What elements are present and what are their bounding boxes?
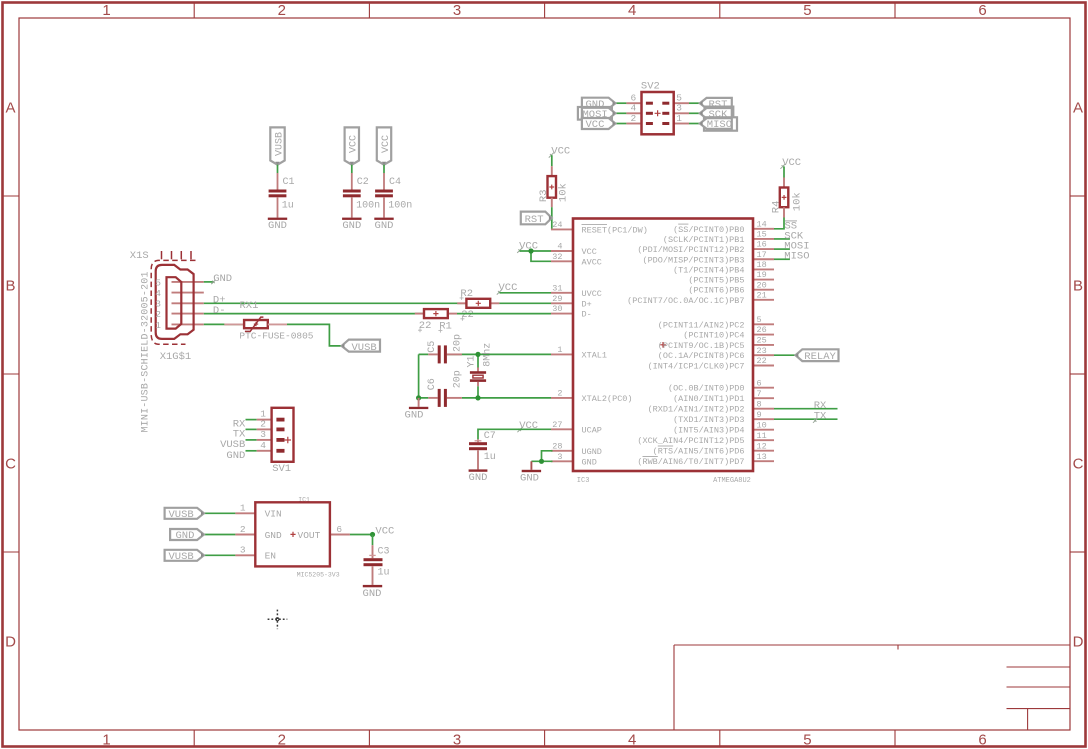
connector X1 pin numbers: [155, 277, 161, 331]
svg-text:100n: 100n: [388, 201, 412, 212]
wire SCK stub: [774, 238, 790, 240]
svg-text:1u: 1u: [484, 452, 496, 463]
net flag RST: [521, 212, 552, 225]
svg-text:3: 3: [453, 2, 461, 19]
svg-text:3: 3: [260, 429, 266, 440]
svg-text:(OC.1A/PCINT8)PC6: (OC.1A/PCINT8)PC6: [658, 351, 745, 361]
svg-text:6: 6: [978, 2, 986, 19]
ground at IC3 GND: [530, 461, 532, 470]
svg-text:VCC: VCC: [586, 119, 605, 131]
supply flag VCC (C2): [345, 127, 359, 164]
frame column dividers: [194, 3, 895, 748]
svg-text:B: B: [1073, 278, 1083, 295]
svg-text:MINI-USB-SCHIELD-32005-201: MINI-USB-SCHIELD-32005-201: [141, 272, 152, 433]
net labels RX TX VUSB GND at SV1: [220, 419, 246, 462]
svg-text:1: 1: [676, 113, 682, 124]
svg-text:GND: GND: [469, 472, 488, 484]
svg-text:11: 11: [757, 431, 767, 441]
ground at C3: [363, 585, 382, 587]
connector X1 shield dashed outline: [151, 260, 195, 344]
svg-text:RST: RST: [525, 214, 544, 226]
ground at C7: [469, 469, 488, 471]
junction VCC at C3: [370, 532, 375, 537]
title block: [674, 645, 1070, 730]
svg-text:30: 30: [552, 304, 562, 314]
svg-text:2: 2: [278, 2, 286, 19]
IC1 body MIC5205: [255, 502, 330, 566]
svg-text:12: 12: [757, 441, 767, 451]
svg-text:1: 1: [102, 732, 110, 749]
net flag VUSB (IC1 VIN): [165, 508, 204, 519]
svg-text:(PCINT5)PB5: (PCINT5)PB5: [688, 276, 744, 286]
svg-text:(PDO/MISP/PCINT3)PB3: (PDO/MISP/PCINT3)PB3: [642, 255, 744, 265]
svg-text:26: 26: [757, 325, 767, 335]
IC IC3 body: [573, 219, 753, 472]
connector X1 inner cavity: [167, 277, 182, 328]
svg-text:RELAY: RELAY: [804, 351, 836, 363]
svg-text:VCC: VCC: [551, 146, 570, 158]
svg-text:1: 1: [155, 320, 161, 331]
svg-text:X1G$1: X1G$1: [160, 351, 192, 363]
net flag VUSB (fuse): [342, 340, 380, 352]
wire UCAP net: [478, 429, 551, 439]
connector SV2 pins right: [674, 103, 700, 123]
capacitor C2 100n with ground: [351, 173, 353, 190]
svg-text:C2: C2: [357, 177, 369, 188]
svg-text:(RTS/AIN5/INT6)PD6: (RTS/AIN5/INT6)PD6: [653, 447, 745, 457]
frame row letters left: [5, 100, 16, 651]
svg-text:6: 6: [757, 378, 762, 388]
svg-text:2: 2: [278, 732, 286, 749]
svg-text:VCC: VCC: [519, 420, 538, 432]
svg-text:MISO: MISO: [707, 119, 732, 131]
crystal Y1 8Mhz: [477, 354, 479, 367]
capacitor C7 1u: [477, 439, 479, 442]
net flag VUSB (IC1 EN): [165, 550, 204, 561]
svg-text:27: 27: [552, 420, 562, 430]
svg-text:PTC-FUSE-0805: PTC-FUSE-0805: [239, 331, 313, 342]
wire D+ net X1 to R2: [204, 302, 467, 304]
svg-text:GND: GND: [363, 588, 382, 600]
wire VCC to IC3 pins 4 and 32: [520, 251, 552, 261]
svg-text:5: 5: [803, 732, 811, 749]
svg-text:10: 10: [757, 420, 767, 430]
capacitor C5 20p: [438, 345, 441, 363]
svg-text:VCC: VCC: [381, 135, 392, 153]
svg-text:(PCINT6)PB6: (PCINT6)PB6: [688, 286, 744, 296]
wire D- net X1 to R1: [204, 313, 424, 315]
svg-text:R3: R3: [538, 189, 550, 202]
svg-text:22: 22: [757, 356, 767, 366]
svg-text:6: 6: [336, 524, 342, 535]
svg-text:1u: 1u: [282, 201, 294, 212]
wire C5-C6 left vertical: [418, 354, 420, 398]
net flag GND (SV2 pin6): [582, 98, 616, 109]
svg-text:20p: 20p: [453, 370, 464, 388]
svg-text:MIC5205-3V3: MIC5205-3V3: [297, 571, 340, 578]
wire UGND/GND to ground: [531, 451, 552, 462]
wire XTAL1 rail: [419, 353, 551, 355]
wire VUSB to C1: [277, 165, 279, 174]
IC IC3 left pin names: [582, 225, 648, 467]
wire VBUS from X1 pin1 to fuse: [204, 323, 244, 325]
svg-text:20p: 20p: [453, 334, 464, 352]
svg-text:2: 2: [155, 309, 161, 320]
wire R3 to IC3 RESET: [551, 198, 553, 208]
svg-text:VUSB: VUSB: [169, 551, 194, 563]
svg-text:VCC: VCC: [582, 247, 597, 257]
junction XTAL1/crystal: [475, 352, 480, 357]
svg-text:D-: D-: [213, 305, 226, 317]
wire RX (PD2): [774, 408, 838, 410]
svg-text:28: 28: [552, 441, 562, 451]
svg-text:(PDI/MOSI/PCINT12)PB2: (PDI/MOSI/PCINT12)PB2: [637, 245, 744, 255]
svg-text:C3: C3: [378, 547, 390, 558]
IC U-IC3 pin stubs left: [551, 229, 573, 461]
supply flag VCC (C4): [377, 127, 391, 164]
capacitor C6 20p: [438, 389, 441, 407]
net flag MISO (SV2 pin1): [704, 117, 737, 130]
wire MOSI stub: [774, 248, 790, 250]
junction UGND/GND: [539, 459, 544, 464]
wire R2 to IC3 D+: [499, 302, 551, 304]
wire PC6 to RELAY: [774, 354, 796, 356]
wire VOUT to VCC: [350, 534, 373, 536]
svg-text:ATMEGA8U2: ATMEGA8U2: [713, 477, 751, 485]
svg-text:100n: 100n: [356, 201, 380, 212]
supply flag VUSB (top): [270, 127, 284, 164]
net flag MOSI (SV2 pin4): [578, 107, 612, 120]
connector SV2 pins left: [615, 103, 641, 123]
svg-text:R4: R4: [771, 201, 783, 214]
wire R1 to IC3 D-: [457, 313, 551, 315]
IC1 pin stub right (VOUT): [330, 534, 350, 536]
svg-text:3: 3: [557, 452, 562, 462]
svg-text:21: 21: [757, 290, 767, 300]
svg-text:(XCK_AIN4/PCINT12)PD5: (XCK_AIN4/PCINT12)PD5: [637, 436, 744, 446]
svg-text:(PCINT10)PC4: (PCINT10)PC4: [683, 331, 744, 341]
svg-text:EN: EN: [265, 551, 276, 562]
wire VCC to R3: [551, 155, 553, 166]
svg-text:(PCINT9/OC.1B)PC5: (PCINT9/OC.1B)PC5: [658, 341, 745, 351]
svg-text:29: 29: [552, 294, 562, 304]
capacitor C4 100n with ground: [383, 173, 385, 190]
wire VCC to C4: [383, 165, 385, 174]
svg-text:SV1: SV1: [272, 463, 291, 475]
junction VCC pins 4/32: [528, 248, 533, 253]
svg-text:C6: C6: [427, 378, 438, 390]
svg-text:(PCINT7/OC.0A/OC.1C)PB7: (PCINT7/OC.0A/OC.1C)PB7: [627, 296, 744, 306]
ground at crystal: [418, 398, 420, 407]
cursor crosshair: [268, 610, 288, 630]
svg-text:C1: C1: [283, 177, 295, 188]
fuse F1 PTC-FUSE-0805: [244, 320, 268, 328]
svg-text:XTAL2(PC0): XTAL2(PC0): [582, 394, 633, 404]
svg-text:1: 1: [557, 345, 562, 355]
connector SV2 pin numbers: [630, 93, 682, 124]
svg-text:1u: 1u: [378, 568, 390, 579]
svg-text:C5: C5: [427, 341, 438, 353]
IC1 pin stubs left: [204, 513, 255, 555]
svg-text:(TXD1/INT3)PD3: (TXD1/INT3)PD3: [673, 415, 744, 425]
svg-text:(INT4/ICP1/CLK0)PC7: (INT4/ICP1/CLK0)PC7: [648, 362, 745, 372]
svg-text:VCC: VCC: [782, 157, 801, 169]
svg-text:13: 13: [757, 452, 767, 462]
svg-text:VUSB: VUSB: [352, 342, 377, 354]
net flag VCC (SV2 pin2): [582, 118, 616, 129]
svg-text:UCAP: UCAP: [582, 425, 602, 435]
svg-text:18: 18: [757, 260, 767, 270]
svg-text:MISO: MISO: [784, 251, 809, 263]
connector SV2 body: [642, 92, 674, 134]
svg-text:8Mhz: 8Mhz: [481, 343, 493, 367]
frame column numbers bottom: [102, 732, 986, 749]
svg-text:D+: D+: [582, 299, 592, 309]
connector SV1 pins: [246, 420, 272, 451]
svg-text:(AIN0/INT1)PD1: (AIN0/INT1)PD1: [673, 394, 744, 404]
svg-text:GND: GND: [405, 410, 424, 422]
svg-text:GND: GND: [213, 273, 232, 285]
resistor R4 10k: [780, 188, 789, 208]
svg-text:GND: GND: [176, 530, 195, 542]
connector SV1 pads: [276, 418, 284, 453]
svg-text:C7: C7: [484, 431, 496, 442]
svg-text:32: 32: [552, 252, 562, 262]
net flag RST (SV2 pin5): [700, 98, 732, 109]
svg-text:VIN: VIN: [265, 509, 282, 520]
svg-text:GND: GND: [268, 220, 287, 232]
wire TX (PD3): [774, 418, 838, 420]
svg-text:GND: GND: [265, 530, 282, 541]
wire MISO stub: [774, 258, 790, 260]
svg-text:9: 9: [757, 410, 762, 420]
svg-text:D: D: [1073, 634, 1084, 651]
svg-text:A: A: [5, 100, 15, 117]
svg-text:4: 4: [628, 2, 636, 19]
svg-text:6: 6: [978, 732, 986, 749]
svg-text:A: A: [1073, 100, 1083, 117]
frame row dividers: [3, 196, 1087, 552]
svg-text:UVCC: UVCC: [582, 289, 602, 299]
svg-text:31: 31: [552, 283, 562, 293]
svg-text:5: 5: [757, 315, 762, 325]
svg-text:VCC: VCC: [349, 135, 360, 153]
svg-text:(SS/PCINT0)PB0: (SS/PCINT0)PB0: [673, 225, 744, 235]
svg-text:10k: 10k: [557, 183, 569, 202]
svg-text:VOUT: VOUT: [298, 530, 321, 541]
svg-text:2: 2: [260, 418, 266, 429]
svg-text:D: D: [5, 634, 16, 651]
svg-text:10k: 10k: [792, 192, 804, 211]
svg-text:4: 4: [155, 288, 161, 299]
svg-text:GND: GND: [520, 473, 539, 485]
capacitor C1 1u with ground: [277, 173, 279, 190]
connector X1 pins 1-5: [172, 282, 204, 325]
frame row letters right: [1073, 100, 1084, 651]
svg-text:(RXD1/AIN1/INT2)PD2: (RXD1/AIN1/INT2)PD2: [648, 405, 745, 415]
resistor R2 22 (D+): [457, 302, 466, 304]
svg-text:15: 15: [757, 230, 767, 240]
wire fuse to VUSB flag: [268, 323, 287, 325]
resistor R3 10k: [548, 176, 557, 198]
svg-text:(OC.0B/INT0)PD0: (OC.0B/INT0)PD0: [668, 384, 745, 394]
svg-text:GND: GND: [226, 450, 245, 462]
svg-text:X1S: X1S: [130, 250, 149, 262]
svg-text:(T1/PCINT4)PB4: (T1/PCINT4)PB4: [673, 265, 744, 275]
svg-text:25: 25: [757, 336, 767, 346]
junction C6/GND: [416, 395, 421, 400]
wire VCC to C2: [351, 165, 353, 174]
svg-text:GND: GND: [375, 220, 394, 232]
svg-text:AVCC: AVCC: [582, 257, 602, 267]
svg-text:GND: GND: [582, 457, 597, 467]
svg-text:4: 4: [628, 732, 636, 749]
svg-text:C4: C4: [389, 177, 401, 188]
connector X1 outer body: [156, 265, 194, 339]
IC IC3 right pin numbers: [757, 219, 767, 461]
connector SV1 pin numbers: [260, 409, 266, 451]
IC IC3 right pin names: [582, 224, 745, 467]
svg-text:5: 5: [803, 2, 811, 19]
resistor R1 22 (D-): [415, 313, 424, 315]
net flag RELAY: [796, 349, 839, 361]
wire GND stub from X1 pin5: [204, 281, 214, 283]
svg-text:3: 3: [453, 732, 461, 749]
svg-text:2: 2: [557, 389, 562, 399]
net flag SCK (SV2 pin3): [705, 107, 734, 120]
svg-text:D-: D-: [582, 310, 592, 320]
svg-text:B: B: [5, 278, 15, 295]
svg-text:(INT5/AIN3)PD4: (INT5/AIN3)PD4: [673, 426, 744, 436]
svg-text:VUSB: VUSB: [169, 509, 194, 521]
svg-text:4: 4: [557, 242, 562, 252]
svg-text:8: 8: [757, 399, 762, 409]
svg-text:XTAL1: XTAL1: [582, 350, 608, 360]
connector SV2 pads: [646, 102, 669, 125]
svg-text:(SCLK/PCINT1)PB1: (SCLK/PCINT1)PB1: [663, 235, 745, 245]
svg-text:GND: GND: [342, 220, 361, 232]
svg-text:(RWB/AIN6/T0/INT7)PD7: (RWB/AIN6/T0/INT7)PD7: [637, 457, 744, 467]
svg-text:1: 1: [240, 503, 246, 514]
svg-text:RX1: RX1: [240, 300, 259, 312]
svg-text:20: 20: [757, 280, 767, 290]
svg-text:(PCINT11/AIN2)PC2: (PCINT11/AIN2)PC2: [658, 320, 745, 330]
wire XTAL2 rail: [419, 397, 551, 399]
svg-text:IC3: IC3: [577, 477, 590, 485]
svg-text:14: 14: [757, 219, 767, 229]
svg-text:UGND: UGND: [582, 447, 602, 457]
svg-text:24: 24: [552, 220, 562, 230]
svg-text:4: 4: [260, 440, 266, 451]
IC U-IC3 pin stubs right: [753, 229, 774, 461]
svg-text:VCC: VCC: [375, 526, 394, 538]
svg-text:17: 17: [757, 250, 767, 260]
connector X1 shield ticks: [162, 251, 192, 259]
wire R4 to SS: [783, 207, 785, 217]
svg-text:Y1: Y1: [466, 355, 477, 367]
svg-text:3: 3: [240, 545, 246, 556]
svg-text:SV2: SV2: [641, 80, 660, 92]
svg-text:C: C: [1073, 456, 1084, 473]
svg-text:2: 2: [630, 113, 636, 124]
frame column numbers top: [102, 2, 986, 19]
IC IC3 left pin numbers: [552, 220, 562, 462]
svg-text:C: C: [5, 456, 16, 473]
svg-text:7: 7: [757, 389, 762, 399]
svg-text:RESET(PC1/DW): RESET(PC1/DW): [582, 225, 648, 235]
net flag GND (IC1 GND): [170, 529, 204, 540]
capacitor C3 1u: [372, 535, 374, 546]
svg-text:5: 5: [155, 277, 161, 288]
wire VCC to IC3 UVCC: [500, 292, 552, 294]
connector SV1 body: [272, 408, 294, 462]
junction XTAL2/crystal: [475, 395, 480, 400]
svg-text:23: 23: [757, 346, 767, 356]
svg-text:1: 1: [102, 2, 110, 19]
svg-text:VUSB: VUSB: [274, 132, 285, 156]
IC1 pin numbers: [240, 503, 343, 556]
wire VCC to R4: [783, 166, 785, 177]
svg-text:2: 2: [240, 524, 246, 535]
svg-text:16: 16: [757, 240, 767, 250]
svg-text:19: 19: [757, 270, 767, 280]
